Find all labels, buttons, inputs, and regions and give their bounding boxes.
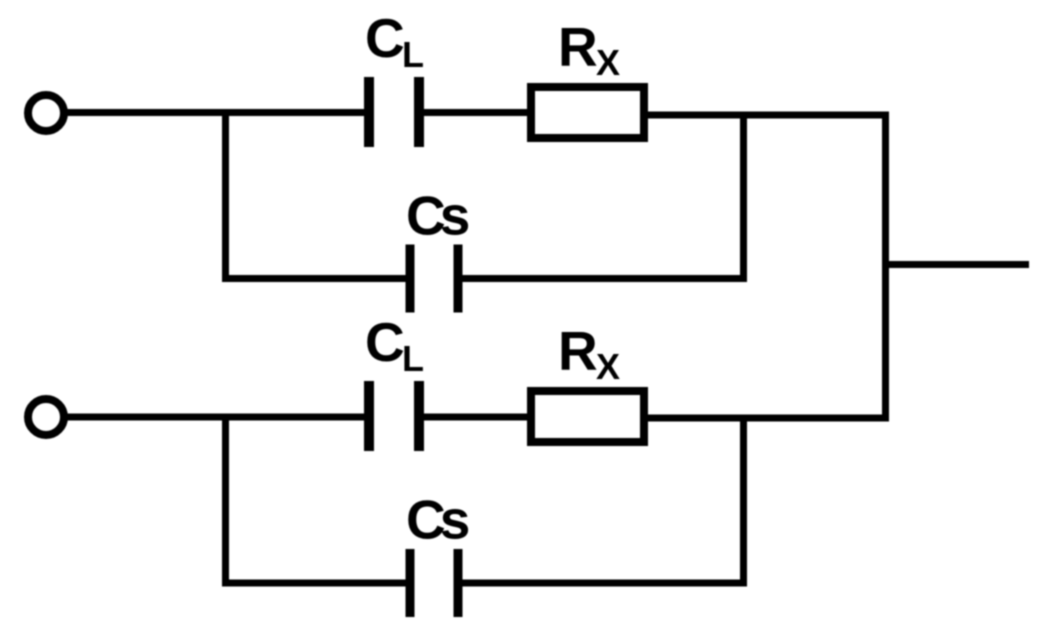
- wire C_L to R_X (top): [419, 109, 531, 116]
- svg-text:X: X: [596, 42, 620, 83]
- capacitor C_L (bottom) right plate: [414, 381, 424, 451]
- capacitor C_L (bottom) left plate: [364, 381, 374, 451]
- capacitor Cs (top) left plate: [406, 245, 415, 313]
- wire loop bottom left (top Cs branch): [222, 275, 411, 282]
- svg-text:R: R: [558, 320, 598, 382]
- svg-text:Cs: Cs: [406, 489, 469, 551]
- wire loop bottom right (top Cs branch): [458, 275, 747, 282]
- terminal T1 (top input): [28, 95, 64, 131]
- node junction bottom-right (branch up): [740, 415, 747, 587]
- svg-text:L: L: [402, 338, 424, 379]
- wire R_X to right bus (top): [644, 112, 889, 119]
- wire loop bottom right (bottom Cs branch): [458, 580, 747, 587]
- svg-text:Cs: Cs: [406, 185, 469, 247]
- wire right bus vertical: [882, 112, 889, 422]
- node junction bottom-left (branch down): [222, 414, 229, 587]
- svg-text:C: C: [365, 7, 405, 69]
- capacitor C_L (top) right plate: [414, 77, 424, 147]
- wire T1 to C_L left plate: [65, 109, 369, 116]
- svg-text:L: L: [402, 34, 424, 75]
- resistor R_X (top): [531, 87, 644, 138]
- svg-text:R: R: [558, 16, 598, 78]
- capacitor C_L (top) left plate: [364, 77, 374, 147]
- wire C_L to R_X (bottom): [419, 414, 531, 421]
- terminal T2 (bottom input): [28, 399, 64, 435]
- wire T2 to C_L left plate: [65, 414, 369, 421]
- capacitor Cs (bottom) right plate: [454, 549, 463, 617]
- resistor R_X (bottom): [531, 391, 644, 442]
- capacitor Cs (top) right plate: [454, 245, 463, 313]
- wire R_X to right bus (bottom): [644, 415, 889, 422]
- svg-text:X: X: [596, 346, 620, 387]
- node junction top-right (branch up): [740, 112, 747, 283]
- svg-text:C: C: [365, 311, 405, 373]
- wire output: [882, 261, 1029, 268]
- capacitor Cs (bottom) left plate: [406, 549, 415, 617]
- wire loop bottom left (bottom Cs branch): [222, 580, 411, 587]
- node junction top-left (branch down): [222, 109, 229, 282]
